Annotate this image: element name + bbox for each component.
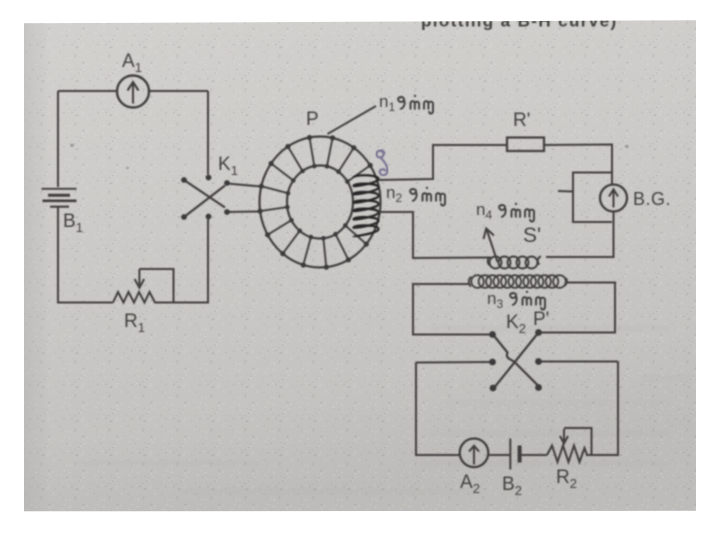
svg-text:P: P: [306, 109, 319, 130]
svg-text:R': R': [513, 110, 530, 131]
svg-text:B.G.: B.G.: [633, 189, 671, 209]
svg-text:S': S': [523, 224, 541, 247]
svg-text:P': P': [533, 309, 549, 330]
